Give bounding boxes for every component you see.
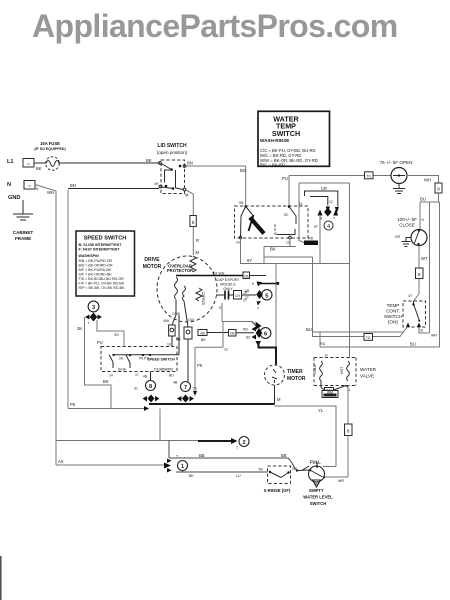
svg-text:PU: PU: [97, 340, 103, 345]
svg-text:BB: BB: [199, 453, 205, 458]
svg-text:RD: RD: [308, 237, 314, 241]
svg-text:S/F = BK-OR/RD-BK: S/F = BK-OR/RD-BK: [79, 273, 113, 277]
svg-text:14: 14: [109, 374, 113, 378]
svg-text:3: 3: [92, 305, 95, 311]
svg-text:F: FAST INTERMITTENT: F: FAST INTERMITTENT: [79, 248, 121, 252]
svg-text:TIMER: TIMER: [287, 369, 303, 375]
svg-text:CR: CR: [321, 186, 327, 191]
svg-text:WATER LEVEL: WATER LEVEL: [303, 495, 333, 500]
svg-text:YB: YB: [258, 468, 263, 472]
svg-text:1K: 1K: [167, 343, 172, 347]
svg-text:9T: 9T: [314, 225, 318, 229]
svg-text:N: N: [7, 182, 11, 188]
svg-text:BK: BK: [189, 474, 194, 478]
svg-text:GND: GND: [8, 195, 20, 201]
svg-text:o: o: [28, 162, 30, 166]
svg-text:L1: L1: [7, 159, 14, 165]
svg-text:CLOSE: CLOSE: [399, 223, 415, 228]
svg-text:12: 12: [286, 241, 290, 245]
svg-text:R/C = BK-RD: R/C = BK-RD: [260, 163, 285, 168]
svg-text:4T: 4T: [408, 294, 413, 298]
svg-text:MOTOR: MOTOR: [143, 264, 162, 270]
svg-text:9N: 9N: [239, 201, 244, 205]
svg-text:B/S = BK-OR/RD-OR: B/S = BK-OR/RD-OR: [79, 264, 113, 268]
svg-text:DRIVE: DRIVE: [144, 257, 160, 263]
svg-text:X WH: X WH: [215, 272, 225, 276]
svg-text:H: H: [325, 354, 328, 358]
svg-text:BU: BU: [306, 327, 312, 332]
svg-text:BK: BK: [270, 247, 276, 252]
svg-text:D1986WPB: D1986WPB: [154, 368, 173, 372]
svg-text:F/S = BK,BC/BU,BU RD-OR: F/S = BK,BC/BU,BU RD-OR: [79, 277, 125, 281]
svg-text:B: B: [421, 329, 424, 333]
svg-text:4B: 4B: [173, 381, 178, 385]
svg-text:TD: TD: [366, 336, 371, 340]
svg-text:SWITCH: SWITCH: [310, 501, 327, 506]
svg-text:YL: YL: [318, 408, 324, 413]
svg-text:49A: 49A: [163, 319, 170, 323]
svg-text:(IF SO EQUIPPED): (IF SO EQUIPPED): [34, 147, 66, 151]
svg-text:WATER: WATER: [360, 367, 377, 372]
svg-text:WH: WH: [431, 334, 437, 338]
svg-text:10: 10: [236, 241, 240, 245]
svg-text:GR: GR: [395, 235, 401, 239]
svg-text:5C: 5C: [284, 213, 289, 217]
svg-text:31: 31: [134, 387, 138, 391]
svg-text:CH: CH: [235, 294, 240, 298]
svg-text:1T: 1T: [135, 373, 139, 377]
svg-text:ONLY: ONLY: [223, 287, 233, 291]
svg-text:LU: LU: [236, 474, 241, 478]
svg-text:MOTOR: MOTOR: [287, 376, 306, 382]
svg-text:CONT.: CONT.: [386, 309, 400, 314]
svg-text:BK: BK: [146, 158, 152, 163]
svg-text:S/HA: S/HA: [118, 368, 127, 372]
svg-text:F/F = BK-PU, OV-BK RD-BK: F/F = BK-PU, OV-BK RD-BK: [79, 282, 125, 286]
svg-text:T: T: [236, 446, 238, 450]
svg-text:BN: BN: [70, 183, 76, 188]
svg-text:SPEED SWITCH: SPEED SWITCH: [147, 358, 175, 362]
svg-text:M: M: [277, 397, 281, 402]
svg-text:15A FUSE: 15A FUSE: [40, 141, 60, 146]
svg-text:BG: BG: [240, 168, 246, 173]
svg-text:6: 6: [264, 332, 267, 338]
svg-text:EMPTY: EMPTY: [309, 488, 324, 493]
svg-text:1B: 1B: [245, 289, 250, 293]
svg-text:WH: WH: [424, 178, 431, 183]
svg-text:LID SWITCH: LID SWITCH: [157, 143, 187, 149]
svg-text:TEMP: TEMP: [387, 303, 400, 308]
svg-text:8: 8: [418, 272, 421, 277]
svg-text:12: 12: [329, 200, 333, 204]
svg-text:FRAME: FRAME: [15, 236, 31, 241]
svg-text:o: o: [29, 184, 31, 188]
svg-text:8: 8: [149, 384, 152, 390]
svg-text:M: M: [185, 193, 189, 198]
svg-text:B/B = BK-PU/RD-OR: B/B = BK-PU/RD-OR: [79, 259, 113, 263]
svg-text:R: R: [196, 238, 199, 243]
svg-text:BU: BU: [410, 342, 416, 347]
svg-text:PROTECTOR: PROTECTOR: [167, 268, 193, 273]
svg-text:3K: 3K: [176, 338, 181, 342]
svg-text:R/P = BK-BK, OV-BK RD-BK: R/P = BK-BK, OV-BK RD-BK: [79, 286, 126, 290]
svg-text:HOT: HOT: [340, 367, 344, 374]
svg-text:BB: BB: [281, 453, 287, 458]
svg-text:MODELS: MODELS: [220, 283, 236, 287]
svg-text:CB: CB: [230, 332, 235, 336]
svg-text:BU: BU: [420, 197, 426, 202]
svg-text:TD: TD: [366, 174, 371, 178]
svg-text:8: 8: [192, 220, 195, 225]
svg-text:CABINET: CABINET: [13, 230, 34, 235]
svg-text:RU: RU: [320, 342, 326, 346]
svg-text:T: T: [176, 455, 178, 459]
svg-text:COLD: COLD: [313, 364, 317, 374]
svg-text:2H: 2H: [119, 357, 124, 361]
svg-text:3K: 3K: [77, 326, 82, 331]
svg-text:12: 12: [224, 348, 228, 352]
svg-text:WASH/SPIN: WASH/SPIN: [79, 254, 100, 258]
svg-text:SPEED SWITCH: SPEED SWITCH: [84, 236, 127, 242]
svg-text:7: 7: [184, 385, 187, 391]
svg-text:BN: BN: [187, 161, 193, 166]
svg-text:AX: AX: [58, 459, 64, 464]
svg-text:B/F = BK-PU/RD-BK: B/F = BK-PU/RD-BK: [79, 268, 112, 272]
svg-text:100+/- 5F: 100+/- 5F: [397, 217, 417, 222]
svg-text:1: 1: [181, 464, 184, 470]
svg-text:BO: BO: [169, 374, 174, 378]
svg-text:(open position): (open position): [157, 150, 188, 155]
svg-text:N: N: [36, 187, 39, 191]
svg-text:4: 4: [327, 224, 330, 230]
svg-text:PK: PK: [70, 402, 76, 407]
svg-text:4H: 4H: [154, 182, 159, 186]
svg-text:START: START: [201, 291, 206, 305]
svg-text:1L: 1L: [299, 202, 303, 206]
svg-text:8: 8: [347, 429, 350, 434]
svg-text:M: M: [196, 250, 200, 255]
svg-text:BK: BK: [36, 166, 42, 171]
svg-text:VALVE: VALVE: [360, 374, 374, 379]
svg-text:5: 5: [265, 293, 268, 299]
svg-text:WM: WM: [327, 390, 333, 394]
svg-text:9Y: 9Y: [247, 258, 252, 263]
svg-text:4B: 4B: [143, 375, 148, 379]
svg-text:9: 9: [252, 282, 254, 286]
svg-text:T: T: [333, 217, 335, 221]
svg-text:WR: WR: [338, 479, 344, 483]
svg-text:SWITCH: SWITCH: [384, 314, 402, 319]
svg-text:H: H: [422, 218, 425, 222]
svg-text:CB: CB: [244, 274, 249, 278]
svg-text:WH: WH: [47, 190, 54, 195]
svg-text:2: 2: [242, 440, 245, 446]
svg-text:RD: RD: [243, 328, 248, 332]
svg-text:76 +/- 5F OPEN: 76 +/- 5F OPEN: [380, 160, 413, 165]
svg-text:B: SLOW INTERMITTENT: B: SLOW INTERMITTENT: [79, 243, 123, 247]
svg-text:BK: BK: [103, 379, 109, 384]
svg-text:2T: 2T: [245, 296, 249, 300]
svg-text:BK: BK: [201, 338, 206, 342]
svg-text:S2: S2: [246, 336, 250, 340]
svg-text:FULL: FULL: [310, 460, 321, 465]
svg-text:PK: PK: [197, 363, 203, 368]
svg-text:CAP EXPORT: CAP EXPORT: [216, 278, 240, 282]
svg-text:CCW: CCW: [172, 312, 181, 316]
svg-text:T: T: [257, 307, 259, 311]
svg-text:SWITCH: SWITCH: [272, 129, 300, 138]
svg-text:X-RINSE (OF): X-RINSE (OF): [264, 488, 291, 493]
svg-text:WASH-RINSE: WASH-RINSE: [260, 138, 289, 143]
svg-text:PU: PU: [282, 176, 288, 181]
svg-text:WT: WT: [421, 256, 428, 261]
svg-text:8: 8: [437, 187, 440, 192]
svg-text:CW: CW: [188, 318, 194, 322]
svg-text:9O: 9O: [114, 333, 119, 337]
svg-text:T: T: [88, 322, 90, 326]
svg-text:[ON]: [ON]: [388, 320, 397, 325]
svg-text:AB: AB: [200, 331, 205, 335]
